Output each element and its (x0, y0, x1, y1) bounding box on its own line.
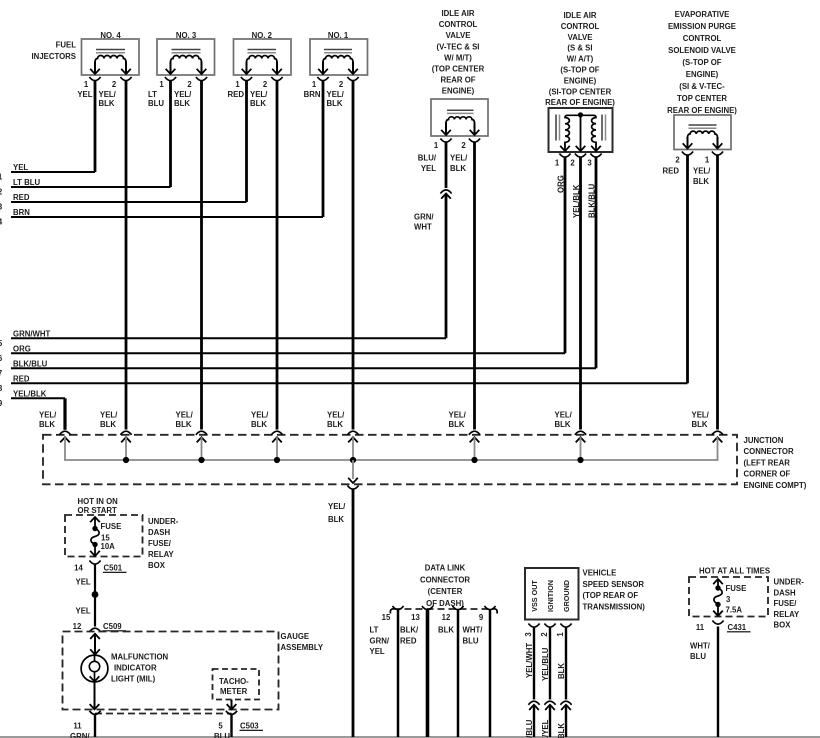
vehicle speed sensor box (525, 568, 579, 620)
svg-text:CORNER OF: CORNER OF (744, 470, 791, 479)
svg-text:HOT AT ALL TIMES: HOT AT ALL TIMES (699, 567, 770, 576)
wire NO. 3 pin1 color LT (148, 81, 171, 188)
svg-text:YEL/: YEL/ (328, 502, 346, 511)
junction splice dot (471, 457, 477, 463)
connector C431 pin 11 (696, 621, 751, 633)
inline connector on VSS wire 2 (544, 701, 555, 710)
svg-text:BLK: BLK (100, 420, 116, 429)
svg-text:BLK: BLK (438, 626, 454, 635)
tachometer caption (219, 677, 249, 696)
svg-text:12: 12 (442, 613, 451, 622)
svg-text:LT: LT (370, 626, 379, 635)
svg-text:YEL: YEL (76, 607, 91, 616)
junction splice dot (350, 457, 356, 463)
DLC pin 12 terminal (442, 606, 464, 622)
malfunction indicator light (MIL) bulb (81, 655, 108, 682)
EVAP pin 1 (705, 152, 723, 165)
idle air control valve 2 box with dual coil (549, 108, 613, 152)
fuel injector NO. 4 (82, 31, 140, 75)
svg-text:1: 1 (159, 80, 164, 89)
svg-text:YEL/: YEL/ (449, 410, 467, 419)
svg-text:BLK: BLK (39, 420, 55, 429)
pin 5 wire BLU (214, 715, 232, 738)
svg-text:FUSE/: FUSE/ (774, 599, 798, 608)
VSS wire 1 lower BLK (557, 705, 566, 738)
svg-text:1: 1 (84, 80, 89, 89)
wire IACV1 pin2 YEL/BLK to junction (450, 142, 475, 430)
svg-text:CONTROL: CONTROL (683, 34, 722, 43)
junction connector terminal at x=126 (120, 431, 131, 460)
svg-text:WHT/: WHT/ (690, 642, 711, 651)
svg-text:BRN: BRN (304, 90, 321, 99)
injector NO. 2 pin 2 (263, 77, 283, 89)
svg-text:EVAPORATIVE: EVAPORATIVE (675, 10, 730, 19)
underdash fuse/relay box (left) dashed (65, 515, 143, 557)
svg-text:REAR OF ENGINE): REAR OF ENGINE) (545, 98, 615, 107)
svg-text:DATA LINK: DATA LINK (425, 564, 466, 573)
svg-text:LT BLU: LT BLU (13, 178, 41, 187)
svg-text:BLK: BLK (327, 99, 343, 108)
svg-text:YEL/: YEL/ (251, 410, 269, 419)
svg-text:(SI & V-TEC-: (SI & V-TEC- (679, 82, 725, 91)
svg-text:OR START: OR START (78, 506, 118, 515)
svg-text:RED: RED (13, 193, 30, 202)
junction splice dot (198, 457, 204, 463)
circuit wire 6 ORG horizontal (0, 345, 565, 363)
svg-text:BLK: BLK (99, 99, 115, 108)
fuse 3 text (726, 584, 747, 615)
svg-text:2: 2 (263, 80, 268, 89)
injector NO. 4 pin 2 (112, 77, 132, 89)
svg-text:10A: 10A (101, 542, 116, 551)
DLC pin 15 terminal (382, 606, 404, 622)
wire YEL/BLK circuit 9 elbow down to junction (63, 398, 66, 430)
underdash box caption (right) (774, 578, 805, 630)
DLC wire labels (370, 626, 484, 657)
wire NO. 2 pin2 YEL/BLK down to junction connector (250, 81, 277, 430)
DLC pin 13 wire (426, 610, 430, 737)
pin 11 wire GRN/ (70, 715, 95, 738)
junction connector terminal at x=717.5 (712, 431, 723, 460)
inline connector on VSS wire 1 (560, 701, 571, 710)
wire YEL splice to C509 (76, 595, 96, 627)
svg-text:BLU: BLU (690, 652, 706, 661)
svg-text:2: 2 (461, 141, 466, 150)
IACV2 pin 3 (587, 154, 601, 168)
svg-text:BRN: BRN (13, 208, 30, 217)
VSS pin 1 wire BLK (557, 627, 566, 700)
svg-text:LT: LT (148, 90, 157, 99)
svg-text:ENGINE): ENGINE) (442, 87, 475, 96)
svg-text:(LEFT REAR: (LEFT REAR (744, 458, 791, 467)
svg-text:BLK: BLK (250, 99, 266, 108)
wire IACV2 pin3 BLK/BLU down to circuit 7 (588, 157, 597, 369)
wire NO. 4 pin2 YEL/BLK down to junction connector (99, 81, 127, 430)
svg-text:BLK: BLK (450, 164, 466, 173)
injector NO. 3 pin 1 (159, 77, 176, 89)
fuel injectors group label (32, 41, 77, 61)
VSS pin 3 wire YEL/WHT (525, 627, 534, 700)
svg-text:LIGHT (MIL): LIGHT (MIL) (111, 675, 156, 684)
svg-text:BLK: BLK (449, 420, 465, 429)
svg-text:IGNITION: IGNITION (546, 580, 555, 612)
wire WHT/BLU (690, 627, 718, 738)
IACV1 pin 1 (434, 139, 452, 151)
svg-text:BLK: BLK (693, 177, 709, 186)
svg-text:ENGINE COMPT): ENGINE COMPT) (744, 481, 807, 490)
svg-text:IDLE AIR: IDLE AIR (563, 11, 596, 20)
junction connector terminal at x=65 (59, 431, 70, 460)
VSS wire 2 lower BLK/YEL (541, 705, 550, 738)
circuit wire 4 BRN horizontal (0, 208, 323, 226)
junction connector caption (744, 436, 807, 490)
junction splice dot (577, 457, 583, 463)
svg-text:3: 3 (587, 159, 592, 168)
tachometer dashed box (213, 669, 260, 700)
svg-text:INJECTORS: INJECTORS (32, 52, 76, 61)
svg-text:2: 2 (112, 80, 117, 89)
VSS caption (583, 569, 646, 612)
svg-text:YEL/WHT: YEL/WHT (525, 643, 534, 678)
junction connector terminal at x=580.5 (575, 431, 586, 460)
svg-text:YEL/: YEL/ (99, 90, 117, 99)
wire EVAP pin2 RED down to circuit 8 (663, 155, 688, 384)
gauge assembly dashed box (63, 632, 279, 710)
svg-text:C431: C431 (728, 623, 747, 632)
svg-text:W/ A/T): W/ A/T) (567, 55, 594, 64)
junction internal bus (64, 459, 718, 461)
svg-text:2: 2 (339, 80, 344, 89)
svg-text:YEL/: YEL/ (692, 410, 710, 419)
connector C501 pin 14 (74, 561, 126, 573)
svg-text:BLK: BLK (328, 515, 344, 524)
svg-text:ORG: ORG (13, 345, 31, 354)
svg-text:1: 1 (705, 156, 710, 165)
DLC pin 15 wire (397, 610, 400, 737)
VSS pin 1 terminal (556, 624, 572, 637)
svg-text:7.5A: 7.5A (726, 606, 743, 615)
VSS wire 3 lower YEL/BLU (525, 705, 534, 738)
svg-text:YEL/BLU: YEL/BLU (525, 719, 534, 738)
svg-text:RED: RED (400, 636, 417, 645)
svg-text:METER: METER (220, 687, 248, 696)
label YEL/BLK above junction (327, 410, 345, 429)
EVAP pin 2 (675, 152, 693, 165)
svg-text:GRN/: GRN/ (414, 213, 434, 222)
fuel injector NO. 2 (234, 31, 292, 75)
svg-text:REAR OF: REAR OF (440, 76, 475, 85)
svg-text:ENGINE): ENGINE) (564, 76, 597, 85)
svg-text:BLK: BLK (692, 420, 708, 429)
evaporative emission purge control solenoid valve header (667, 10, 737, 115)
injector NO. 3 pin 2 (187, 77, 207, 89)
idle air control valve (S & SI w/ A/T) header (545, 11, 615, 107)
VSS pin 2 terminal (540, 624, 556, 637)
label YEL/BLK above junction (251, 410, 269, 429)
wire YEL fuse to splice (76, 564, 96, 595)
svg-text:YEL: YEL (76, 578, 91, 587)
svg-text:BOX: BOX (148, 561, 166, 570)
svg-text:TOP CENTER: TOP CENTER (677, 94, 727, 103)
svg-text:C509: C509 (103, 622, 122, 631)
svg-text:UNDER-: UNDER- (148, 517, 179, 526)
svg-text:REAR OF ENGINE): REAR OF ENGINE) (667, 106, 737, 115)
svg-text:BLK/YEL: BLK/YEL (541, 719, 550, 738)
svg-text:(S-TOP OF: (S-TOP OF (682, 58, 721, 67)
svg-text:BLU/: BLU/ (418, 154, 437, 163)
svg-text:VEHICLE: VEHICLE (583, 569, 617, 578)
svg-text:RED: RED (13, 375, 30, 384)
svg-text:NO. 2: NO. 2 (252, 31, 273, 40)
svg-text:YEL/: YEL/ (250, 90, 268, 99)
svg-text:BLK: BLK (176, 420, 192, 429)
wire NO. 3 pin2 YEL/BLK down to junction connector (174, 81, 202, 430)
label YEL/BLK above junction (449, 410, 467, 429)
label YEL/BLK above junction (176, 410, 194, 429)
svg-text:15: 15 (382, 613, 391, 622)
svg-text:(TOP REAR OF: (TOP REAR OF (583, 591, 639, 600)
wire MIL to pin 11 (90, 683, 100, 710)
svg-text:NO. 1: NO. 1 (328, 31, 349, 40)
svg-text:W/ M/T): W/ M/T) (444, 53, 472, 62)
svg-text:UNDER-: UNDER- (774, 578, 805, 587)
fuel injector NO. 3 (157, 31, 215, 75)
svg-text:VALVE: VALVE (446, 31, 471, 40)
label YEL/BLK above junction (555, 410, 573, 429)
svg-text:EMISSION PURGE: EMISSION PURGE (668, 22, 736, 31)
svg-text:WHT/: WHT/ (463, 626, 484, 635)
svg-text:3: 3 (726, 595, 731, 604)
svg-text:VALVE: VALVE (568, 33, 593, 42)
svg-text:BLK: BLK (557, 663, 566, 679)
wire EVAP pin1 YEL/BLK to junction (693, 155, 718, 430)
svg-text:BLK: BLK (327, 420, 343, 429)
svg-text:TRANSMISSION): TRANSMISSION) (583, 602, 646, 611)
junction splice dot (123, 457, 129, 463)
svg-text:NO. 3: NO. 3 (176, 31, 197, 40)
svg-text:ASSEMBLY: ASSEMBLY (281, 643, 324, 652)
svg-text:ENGINE): ENGINE) (686, 70, 719, 79)
VSS pin 2 wire YEL/BLU (541, 627, 550, 700)
svg-text:SPEED SENSOR: SPEED SENSOR (583, 580, 645, 589)
injector NO. 1 pin 1 (312, 77, 329, 89)
svg-text:14: 14 (74, 564, 83, 573)
svg-text:INDICATOR: INDICATOR (114, 664, 157, 673)
circuit wire 8 RED horizontal (0, 375, 688, 393)
fuse 3 7.5A symbol (713, 579, 723, 616)
svg-text:FUSE/: FUSE/ (148, 539, 172, 548)
svg-text:11: 11 (696, 623, 705, 632)
svg-text:YEL/: YEL/ (174, 90, 192, 99)
svg-text:WHT: WHT (414, 223, 432, 232)
injector NO. 2 pin 1 (235, 77, 252, 89)
svg-text:BLK/: BLK/ (400, 626, 419, 635)
svg-text:YEL/: YEL/ (100, 410, 118, 419)
svg-text:MALFUNCTION: MALFUNCTION (111, 653, 169, 662)
injector NO. 4 pin 1 (84, 77, 101, 89)
svg-text:1: 1 (312, 80, 317, 89)
VSS internal pin names (530, 580, 571, 612)
svg-text:FUSE: FUSE (726, 584, 747, 593)
svg-text:GROUND: GROUND (562, 580, 571, 612)
circuit wire 3 RED horizontal (0, 193, 247, 211)
data link connector header (420, 564, 470, 608)
svg-text:CONNECTOR: CONNECTOR (420, 575, 470, 584)
svg-text:HOT IN ON: HOT IN ON (78, 497, 119, 506)
inline connector break on IACV1 pin1 wire (440, 190, 451, 199)
svg-text:RED: RED (663, 167, 680, 176)
svg-text:DASH: DASH (148, 528, 170, 537)
underdash box caption (left) (148, 517, 179, 570)
svg-text:FUEL: FUEL (56, 41, 77, 50)
svg-text:C503: C503 (240, 722, 259, 731)
IACV2 pin 2 (570, 154, 586, 168)
svg-text:RED: RED (228, 90, 245, 99)
svg-text:CONNECTOR: CONNECTOR (744, 447, 794, 456)
svg-text:1: 1 (235, 80, 240, 89)
HOT IN ON OR START label (78, 497, 119, 515)
svg-text:TACHO-: TACHO- (219, 677, 249, 686)
IACV1 pin 2 (461, 139, 480, 151)
wire into MIL (90, 634, 100, 655)
svg-text:YEL: YEL (370, 647, 385, 656)
svg-text:DASH: DASH (774, 588, 796, 597)
svg-text:IDLE AIR: IDLE AIR (441, 9, 474, 18)
svg-text:JUNCTION: JUNCTION (744, 436, 784, 445)
inline connector on VSS wire 3 (528, 701, 539, 710)
svg-text:C501: C501 (104, 564, 123, 573)
svg-text:YEL: YEL (77, 90, 92, 99)
svg-text:YEL/: YEL/ (39, 410, 57, 419)
svg-text:CONTROL: CONTROL (439, 20, 478, 29)
svg-text:1: 1 (555, 159, 560, 168)
junction pass-through wire to ECM (328, 460, 359, 737)
svg-text:YEL/: YEL/ (176, 410, 194, 419)
svg-text:YEL/: YEL/ (450, 154, 468, 163)
wire NO. 4 pin1 color YEL (77, 81, 95, 173)
wire NO. 1 pin2 YEL/BLK down to junction connector (327, 81, 354, 430)
svg-text:(SI-TOP CENTER: (SI-TOP CENTER (549, 87, 612, 96)
svg-text:GRN/WHT: GRN/WHT (13, 330, 50, 339)
svg-text:BOX: BOX (774, 621, 792, 630)
DLC pin 9 terminal (479, 606, 496, 622)
svg-text:YEL: YEL (421, 164, 436, 173)
svg-text:2: 2 (540, 632, 549, 637)
DLC pin 13 terminal (411, 606, 433, 622)
svg-text:GRN/: GRN/ (70, 732, 90, 738)
svg-text:5: 5 (218, 722, 223, 731)
svg-text:2: 2 (675, 156, 680, 165)
connector C503 bracket (89, 711, 263, 731)
gauge assembly caption (281, 632, 324, 652)
wire NO. 1 pin1 color BRN (304, 81, 323, 218)
junction connector terminal at x=277 (271, 431, 282, 460)
svg-text:YEL/: YEL/ (693, 167, 711, 176)
junction connector terminal at x=201.5 (196, 431, 207, 460)
svg-text:11: 11 (73, 722, 82, 731)
DLC pin 9 wire (489, 610, 492, 737)
junction connector terminal at x=353 (347, 431, 358, 460)
injector NO. 1 pin 2 (339, 77, 359, 89)
MIL caption (111, 653, 169, 684)
VSS pin 3 terminal (524, 624, 540, 637)
svg-text:13: 13 (411, 613, 420, 622)
svg-text:1: 1 (556, 632, 565, 637)
svg-text:NO. 4: NO. 4 (100, 31, 121, 40)
svg-text:BLU: BLU (463, 636, 479, 645)
label YEL/BLK above junction (100, 410, 118, 429)
svg-text:RELAY: RELAY (774, 610, 801, 619)
circuit wire 2 LT BLU horizontal (0, 178, 171, 196)
svg-text:BLK: BLK (557, 723, 566, 738)
connector C509 pin 12 (73, 622, 126, 632)
svg-text:2: 2 (187, 80, 192, 89)
svg-text:GRN/: GRN/ (370, 636, 390, 645)
idle air control valve (V-TEC & SI w/ M/T) header (432, 9, 485, 96)
junction splice dot (274, 457, 280, 463)
svg-text:YEL/: YEL/ (327, 410, 345, 419)
svg-text:9: 9 (479, 613, 484, 622)
circuit wire 5 GRN/WHT horizontal (0, 330, 446, 348)
underdash fuse/relay box (right) dashed (689, 577, 768, 617)
wire IACV2 pin1 ORG down to circuit 6 (557, 157, 566, 354)
EVAP solenoid box with coil (674, 115, 731, 150)
svg-text:FUSE: FUSE (101, 522, 122, 531)
svg-text:ORG: ORG (557, 175, 566, 193)
HOT AT ALL TIMES label (699, 567, 770, 576)
label YEL/BLK above junction (692, 410, 710, 429)
svg-text:CONTROL: CONTROL (561, 22, 600, 31)
svg-text:VSS OUT: VSS OUT (530, 580, 539, 612)
svg-text:YEL/BLK: YEL/BLK (13, 390, 47, 399)
svg-text:1: 1 (434, 141, 439, 150)
splice dot (92, 591, 99, 598)
DLC bracket (390, 609, 497, 614)
svg-text:YEL/BLK: YEL/BLK (572, 184, 581, 218)
circuit wire 1 YEL horizontal (0, 163, 95, 181)
wire GRN/WHT from break down to circuit 5 (414, 194, 446, 339)
svg-text:BLK/BLU: BLK/BLU (588, 183, 597, 218)
svg-text:7: 7 (0, 369, 2, 378)
svg-text:YEL: YEL (13, 163, 28, 172)
svg-text:YEL/: YEL/ (327, 90, 345, 99)
circuit wire 9 YEL/BLK horizontal (0, 390, 65, 408)
idle air control valve 1 box with coil (431, 99, 488, 136)
wire IACV2 pin2 YEL/BLK to junction (572, 157, 581, 430)
svg-text:2: 2 (570, 159, 575, 168)
DLC pin 12 wire (457, 610, 460, 737)
svg-text:BLK: BLK (555, 420, 571, 429)
junction connector terminal at x=474.5 (469, 431, 480, 460)
wire tachometer to pin 5 (227, 700, 237, 710)
IACV2 pin 1 (555, 154, 571, 168)
fuse 15 text (101, 522, 122, 551)
svg-text:(CENTER: (CENTER (428, 587, 463, 596)
label YEL/BLK above junction (39, 410, 57, 429)
svg-text:RELAY: RELAY (148, 550, 175, 559)
fuse 15 10A symbol (90, 517, 100, 556)
svg-text:BLK: BLK (251, 420, 267, 429)
svg-text:GAUGE: GAUGE (281, 632, 310, 641)
circuit wire 7 BLK/BLU horizontal (0, 360, 596, 378)
svg-text:(TOP CENTER: (TOP CENTER (432, 65, 485, 74)
svg-text:(S & SI: (S & SI (567, 44, 592, 53)
wire IACV1 pin1 BLU/YEL (418, 142, 446, 189)
svg-text:SOLENOID VALVE: SOLENOID VALVE (668, 46, 736, 55)
svg-text:3: 3 (524, 632, 533, 637)
bottom page border (0, 736, 820, 738)
svg-text:YEL/: YEL/ (555, 410, 573, 419)
